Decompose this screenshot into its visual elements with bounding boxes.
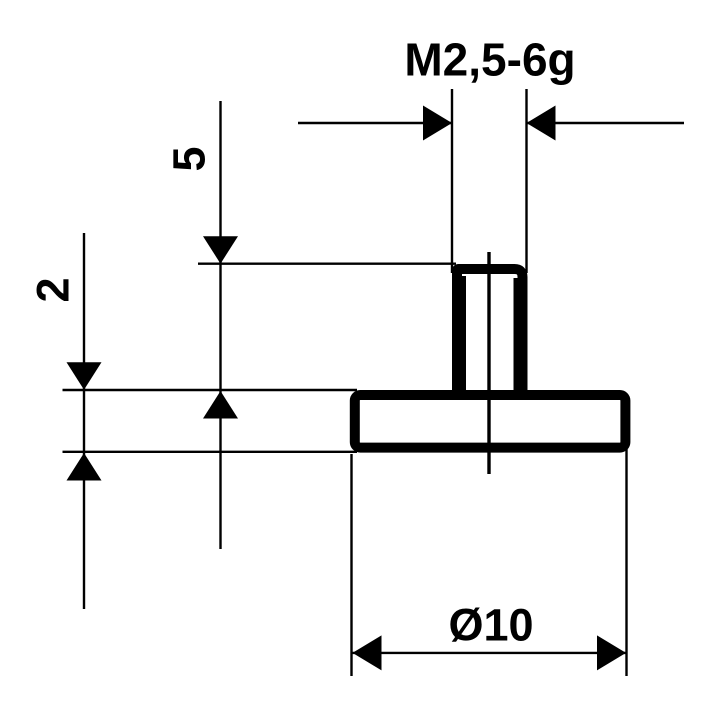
svg-text:5: 5	[164, 146, 215, 171]
svg-text:Ø10: Ø10	[448, 599, 533, 650]
svg-text:2: 2	[28, 277, 79, 302]
svg-text:M2,5-6g: M2,5-6g	[404, 33, 575, 85]
